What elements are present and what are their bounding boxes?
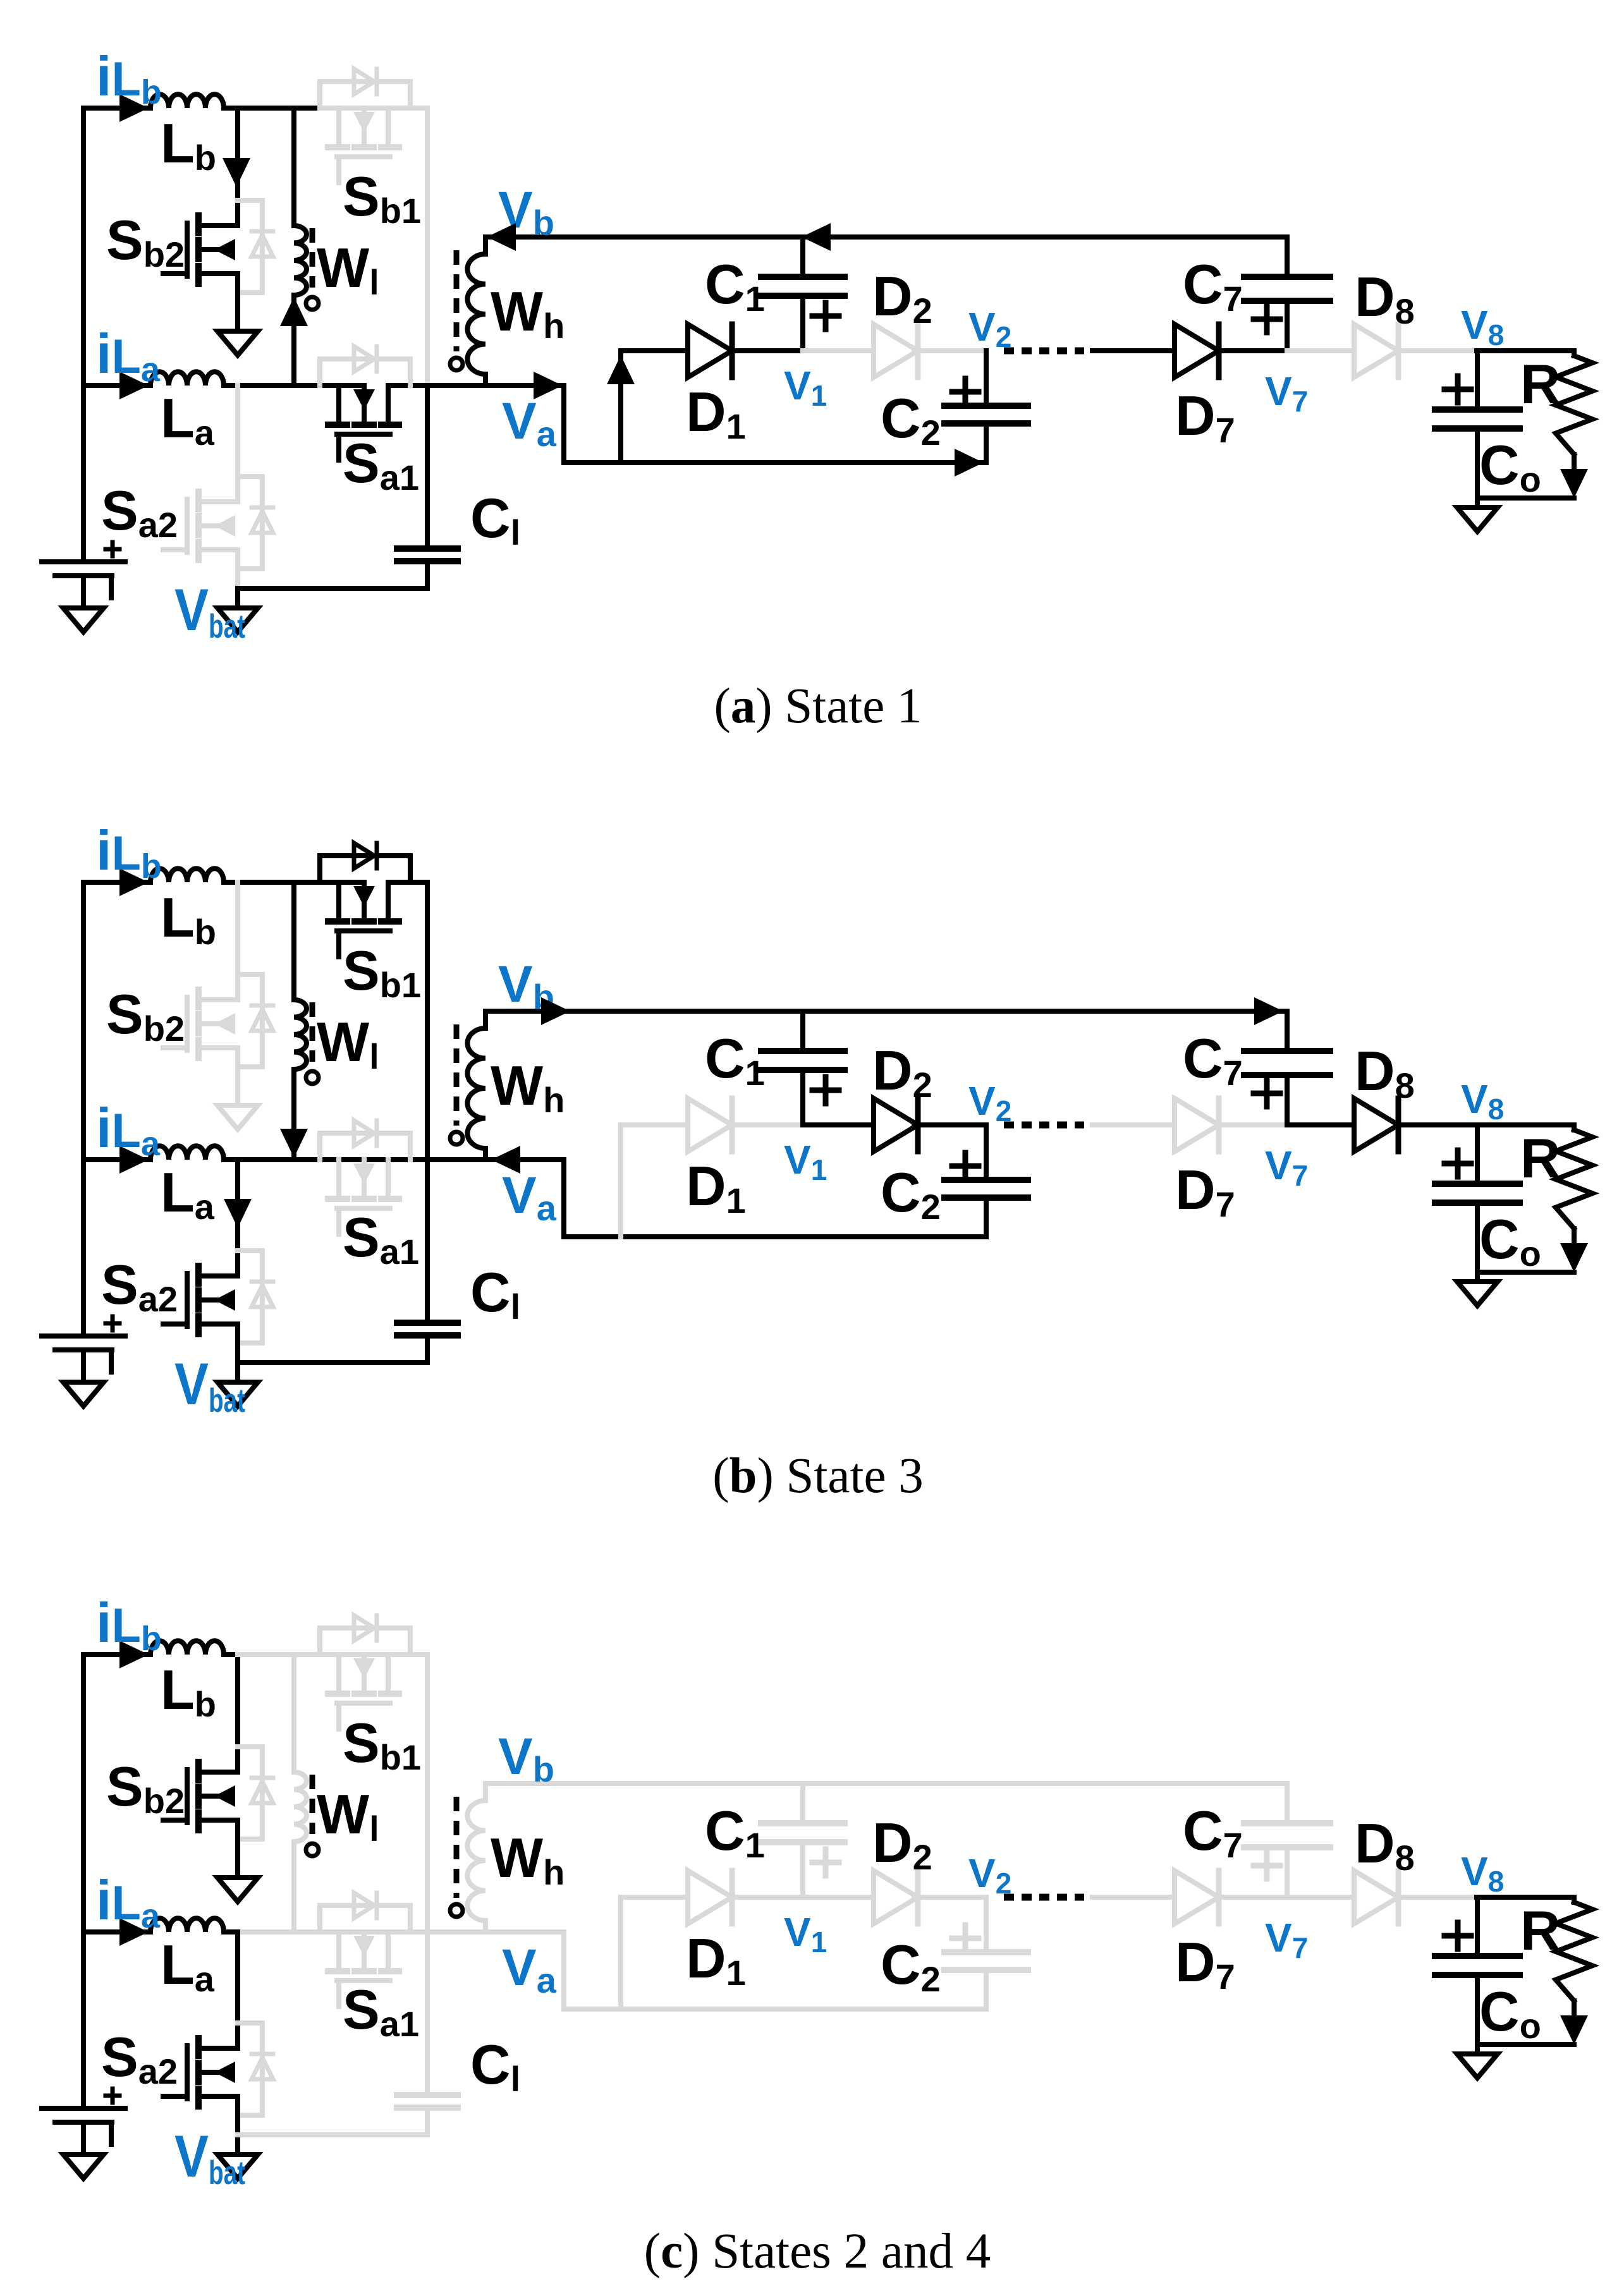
ground below Co xyxy=(1457,507,1498,531)
label V2 xyxy=(968,304,1011,353)
wire top rail Wl node to Sb1 xyxy=(294,1652,320,1657)
wire Va rail through Sa1 region xyxy=(294,1157,427,1162)
label Wl xyxy=(317,1011,379,1076)
wire D2 cathode to node V2 xyxy=(914,1122,986,1127)
label iLb xyxy=(96,819,162,885)
wire battery negative to ground xyxy=(81,576,86,608)
svg-text:R: R xyxy=(1520,1899,1561,1962)
label V1 xyxy=(784,1137,827,1186)
wire D7 cathode to node V7 xyxy=(1218,348,1287,353)
label Lb xyxy=(161,886,216,952)
wire top rail Sb2-node to Wl node xyxy=(238,106,294,111)
capacitor Cl xyxy=(397,549,458,561)
winding Wl upper lead xyxy=(291,108,296,226)
wire battery negative to ground xyxy=(81,2122,86,2154)
wire Cl top lead to Va rail xyxy=(425,1932,430,2095)
wire C2 top lead from node V2 xyxy=(984,1897,989,1952)
inductor La xyxy=(150,1918,224,1932)
transistor Sb1 xyxy=(328,108,399,183)
wire Va rail through Sa1 (source side) xyxy=(388,383,427,388)
label V7 xyxy=(1265,1143,1308,1192)
winding Wl xyxy=(294,1772,319,1856)
wire C7 bottom lead to node V7 xyxy=(1285,301,1290,351)
label C7 xyxy=(1183,1027,1243,1093)
diode D1 xyxy=(688,1098,732,1151)
circuit figure (a) State 1 xyxy=(42,45,1592,645)
plus polarity of C1 xyxy=(812,1849,839,1876)
label Co xyxy=(1479,1208,1541,1273)
capacitor C1 xyxy=(761,1051,845,1070)
wire Co bottom lead xyxy=(1475,1975,1480,2054)
arrow iLb current direction xyxy=(119,94,149,122)
arrow iLa current direction xyxy=(119,372,149,399)
wire Co bottom lead xyxy=(1475,1203,1480,1282)
plus polarity of C7 xyxy=(1254,306,1280,332)
arrow iLb current direction xyxy=(119,1641,149,1668)
svg-text:R: R xyxy=(1520,1127,1561,1189)
inductor Lb xyxy=(150,868,224,882)
label Sa1 xyxy=(343,432,419,497)
body diode of Sa2 xyxy=(238,1251,273,1343)
label D1 xyxy=(686,380,746,446)
wire Sa2 source down to rail xyxy=(235,2096,240,2135)
wire D2 cathode to node V2 xyxy=(914,1895,986,1900)
winding Wl xyxy=(294,1000,319,1084)
ground below Co xyxy=(1457,1282,1498,1306)
wire bottom rail to ground stub xyxy=(235,1363,240,1382)
body diode of Sa2 xyxy=(238,2023,273,2115)
label C7 xyxy=(1183,1799,1243,1865)
wire Sb2 source to ground xyxy=(235,1048,240,1105)
wire R bottom to Co bottom xyxy=(1478,1270,1574,1275)
ground below Sb2 xyxy=(217,1105,258,1129)
label D1 xyxy=(686,1155,746,1220)
wire Va rail through Sa1 region xyxy=(294,1929,427,1935)
label La xyxy=(161,1161,215,1227)
body diode of Sa1 xyxy=(320,1121,410,1160)
wire C7 top lead from Vb rail xyxy=(1285,237,1290,277)
plus polarity of C1 xyxy=(812,303,839,329)
svg-text:(a) State 1: (a) State 1 xyxy=(714,679,922,734)
body diode of Sb2 xyxy=(238,1747,273,1839)
body diode of Sa1 xyxy=(320,346,410,386)
label Sa1 xyxy=(343,1206,419,1272)
wire bottom rail (ground to Cl) xyxy=(238,1360,427,1365)
wire Va rail node to Wh bottom xyxy=(427,1157,485,1162)
wire D1 anode riser xyxy=(618,1125,623,1237)
label Cl xyxy=(470,1261,520,1327)
wire Va jog down xyxy=(485,1932,621,2009)
label Co xyxy=(1479,434,1541,499)
capacitor Co xyxy=(1435,1956,1520,1975)
ground below Co xyxy=(1457,2054,1498,2078)
label Va xyxy=(502,1167,557,1228)
winding Wl lower lead xyxy=(291,295,296,386)
wire Va rail Sa2-node to Wl node (inactive) xyxy=(238,1929,294,1935)
wire node V7 to D8 anode xyxy=(1287,348,1354,353)
wire node V7 to D8 anode xyxy=(1287,1895,1354,1900)
plus polarity of Co xyxy=(1444,1150,1471,1177)
label R xyxy=(1520,1127,1561,1189)
arrow iLa current direction xyxy=(119,1918,149,1946)
winding Wh upper lead to Vb corner xyxy=(483,1011,488,1028)
wire Sb2 drain branch (down from top rail) xyxy=(235,108,240,226)
wire node to Sb2 drain (down) xyxy=(235,1655,240,1772)
ground below Sa2 rail xyxy=(217,1382,258,1406)
wire bottom rail (ground to Cl) xyxy=(238,586,427,591)
ground below Sb2 xyxy=(217,331,258,355)
wire to D7 anode xyxy=(1092,348,1175,353)
capacitor C1 xyxy=(761,277,845,296)
wire D1 anode riser xyxy=(618,351,623,463)
wire battery negative to ground xyxy=(81,1350,86,1382)
capacitor Co xyxy=(1435,410,1520,428)
transistor Sb1 xyxy=(328,1655,399,1729)
label Wl xyxy=(317,236,379,302)
wire through Sb1 (drain side) xyxy=(320,880,364,885)
diode D8 xyxy=(1354,324,1398,377)
transistor Sa1 xyxy=(328,386,399,460)
label iLa xyxy=(96,1096,161,1163)
label D8 xyxy=(1355,1812,1415,1878)
label C2 xyxy=(881,1161,941,1227)
wire ladder bottom rail xyxy=(621,460,986,465)
label V1 xyxy=(784,363,827,412)
ground below battery xyxy=(63,1382,104,1406)
label Lb xyxy=(161,1658,216,1724)
capacitor Cl xyxy=(397,1323,458,1335)
capacitor C7 xyxy=(1244,1051,1330,1075)
wire D1 anode xyxy=(621,348,688,353)
wire La rail from left xyxy=(83,1929,150,1935)
wire Lb to Sb2 branch node xyxy=(224,106,238,111)
winding Wh lower lead xyxy=(483,374,488,386)
wire V8 down to capacitor Co xyxy=(1475,351,1480,410)
winding Wh upper lead to Vb corner xyxy=(483,1783,488,1801)
label C1 xyxy=(705,1799,765,1865)
inductor Lb xyxy=(150,94,224,108)
winding Wl upper lead xyxy=(291,1655,296,1772)
label V1 xyxy=(784,1909,827,1959)
label R xyxy=(1520,1899,1561,1962)
wire R bottom to Co bottom xyxy=(1478,2042,1574,2047)
transistor Sa2 xyxy=(163,492,238,560)
body diode of Sa1 xyxy=(320,1893,410,1932)
wire Co bottom lead xyxy=(1475,428,1480,507)
wire C2 bottom lead to rail xyxy=(984,1970,989,2009)
wire Sb1 right branch down to Va rail xyxy=(425,108,430,386)
wire D1 anode xyxy=(621,1122,688,1127)
wire dashed continuation V2 to D7 section xyxy=(1004,1894,1084,1901)
wire node V8 to load resistor R xyxy=(1477,1895,1574,1900)
label V8 xyxy=(1461,1076,1504,1126)
capacitor Co xyxy=(1435,1184,1520,1203)
wire D2 cathode to node V2 xyxy=(914,348,986,353)
capacitor C1 xyxy=(761,1823,845,1842)
capacitor C2 xyxy=(944,1180,1028,1198)
wire Lb to Sb2 branch node xyxy=(224,1652,238,1657)
wire top rail from left to Lb xyxy=(83,106,150,111)
label D2 xyxy=(872,265,932,331)
ground below battery xyxy=(63,608,104,632)
wire D1 cathode to node V1 xyxy=(732,1895,803,1900)
body diode of Sb2 xyxy=(238,200,273,293)
label Sb1 xyxy=(343,1711,421,1777)
voltage source Vbat xyxy=(42,1316,125,1372)
wire Sa2 drain branch (down from La rail) xyxy=(235,386,240,502)
arrow load current down xyxy=(1560,1243,1588,1272)
label La xyxy=(161,387,215,453)
plus polarity of Co xyxy=(1444,376,1471,403)
label Wl xyxy=(317,1783,379,1849)
wire top rail Sb2-node to Wl node (inactive) xyxy=(238,1652,294,1657)
label C2 xyxy=(881,387,941,453)
plus polarity of C1 xyxy=(812,1077,839,1103)
winding Wl upper lead xyxy=(291,882,296,1000)
transistor Sa1 xyxy=(328,1160,399,1234)
wire Sb1 right branch down to Va rail xyxy=(425,1655,430,1932)
winding Wl lower lead xyxy=(291,1069,296,1160)
wire bottom rail (ground to Cl) xyxy=(238,2132,427,2137)
body diode of Sb1 xyxy=(320,69,410,108)
inductor Lb xyxy=(150,1641,224,1655)
wire node Vb rail xyxy=(485,1781,1287,1786)
wire Cl bottom lead to rail xyxy=(425,1335,430,1363)
wire ladder bottom rail xyxy=(621,1234,986,1239)
label Sa1 xyxy=(343,1978,419,2044)
wire bottom rail to ground stub xyxy=(235,2135,240,2154)
transistor Sa2 xyxy=(163,1266,238,1334)
transistor Sb1 xyxy=(328,882,399,957)
wire left rail (battery to Lb) xyxy=(81,108,86,562)
arrow Va current to the right xyxy=(534,372,563,399)
label V8 xyxy=(1461,302,1504,351)
wire C7 top lead from Vb rail xyxy=(1285,1011,1290,1051)
wire V8 down to capacitor Co xyxy=(1475,1897,1480,1956)
wire top rail Wl node to Sb1 xyxy=(294,880,320,885)
svg-text:(b) State 3: (b) State 3 xyxy=(712,1449,924,1503)
wire C2 top lead from node V2 xyxy=(984,1125,989,1180)
label Sb1 xyxy=(343,165,421,231)
wire node Vb rail xyxy=(485,1009,1287,1014)
label V8 xyxy=(1461,1849,1504,1898)
wire C2 bottom lead to rail xyxy=(984,1198,989,1237)
wire C2 bottom lead to rail xyxy=(984,423,989,463)
wire top rail from left to Lb xyxy=(83,880,150,885)
wire Va jog down xyxy=(485,1160,621,1237)
wire bottom rail to ground stub xyxy=(235,588,240,608)
wire node V1 to D2 anode xyxy=(803,1895,874,1900)
label Lb xyxy=(161,112,216,178)
wire node V8 to load resistor R xyxy=(1477,348,1574,353)
resistor R xyxy=(1556,1125,1592,1245)
capacitor C7 xyxy=(1244,277,1330,301)
resistor R xyxy=(1556,1897,1592,2017)
label Va xyxy=(502,1939,557,2000)
diode D8 xyxy=(1354,1871,1398,1924)
circuit figure (b) State 3 xyxy=(42,819,1592,1419)
label Cl xyxy=(470,487,520,552)
arrow Va current toward Wh xyxy=(491,1146,520,1174)
wire node V1 to D2 anode xyxy=(803,1122,874,1127)
wire through Sb1 (source side) xyxy=(388,880,410,885)
transistor Sa2 xyxy=(163,2038,238,2106)
label R xyxy=(1520,353,1561,415)
label iLb xyxy=(96,1591,162,1658)
label Vbat xyxy=(174,1351,245,1419)
wire Cl bottom lead to rail xyxy=(425,561,430,588)
wire node Vb rail xyxy=(485,234,1287,240)
body diode of Sb1 xyxy=(320,843,410,882)
wire D1 anode xyxy=(621,1895,688,1900)
label D2 xyxy=(872,1039,932,1105)
wire Sb1 source to right branch xyxy=(410,880,427,885)
wire C7 bottom lead to node V7 xyxy=(1285,1075,1290,1125)
wire La rail from left xyxy=(83,1157,150,1162)
winding Wh xyxy=(450,250,485,374)
wire Cl bottom lead to rail xyxy=(425,2108,430,2135)
winding Wh xyxy=(450,1797,485,1921)
wire node V7 to D8 anode xyxy=(1287,1122,1354,1127)
diode D2 xyxy=(874,324,918,377)
label Sb2 xyxy=(106,1755,185,1821)
transistor Sa1 xyxy=(328,1932,399,2007)
ground below Sb2 xyxy=(217,1878,258,1902)
wire D7 cathode to node V7 xyxy=(1218,1122,1287,1127)
arrow Vb current into C7 xyxy=(1254,997,1283,1025)
wire Sb1 right branch down to Va rail xyxy=(425,882,430,1160)
wire Cl top lead to Va rail xyxy=(425,386,430,549)
arrow load current down xyxy=(1560,2015,1588,2044)
capacitor C7 xyxy=(1244,1823,1330,1847)
label iLa xyxy=(96,322,161,389)
circuit figure (c) States 2 and 4 xyxy=(42,1591,1592,2192)
wire D8 cathode to node V8 xyxy=(1398,1895,1477,1900)
label Vb xyxy=(498,1728,554,1789)
arrow iLb current direction xyxy=(119,868,149,896)
capacitor C2 xyxy=(944,406,1028,423)
label Vbat xyxy=(174,2123,245,2192)
diode D7 xyxy=(1175,1098,1219,1151)
voltage source Vbat xyxy=(42,2089,125,2144)
wire La to Sa2 branch node xyxy=(224,1929,238,1935)
wire C1 top lead xyxy=(800,1783,805,1823)
label Wh xyxy=(491,1826,565,1892)
wire La rail from left xyxy=(83,383,150,388)
label Vb xyxy=(498,181,554,243)
diode D1 xyxy=(688,1871,732,1924)
label V7 xyxy=(1265,368,1308,418)
svg-text:R: R xyxy=(1520,353,1561,415)
label D2 xyxy=(872,1811,932,1877)
diode D2 xyxy=(874,1098,918,1151)
transistor Sb2 xyxy=(163,990,238,1058)
diode D7 xyxy=(1175,324,1219,377)
label Vbat xyxy=(174,576,245,645)
arrow current into Sb2 xyxy=(223,158,250,187)
arrow Vb current toward Wh xyxy=(487,223,516,251)
arrow Vb current at C1 xyxy=(802,223,831,251)
winding Wh lower lead xyxy=(483,1148,488,1160)
arrow iLa current direction xyxy=(119,1146,149,1174)
label La xyxy=(161,1933,215,1999)
plus polarity of C2 xyxy=(952,1925,979,1952)
diode D7 xyxy=(1175,1871,1219,1924)
wire through Sb1 region xyxy=(320,1652,410,1657)
wire Cl top lead to Va rail xyxy=(425,1160,430,1323)
plus polarity of Co xyxy=(1444,1922,1471,1949)
wire D8 cathode to node V8 xyxy=(1398,348,1477,353)
label Sb1 xyxy=(343,939,421,1005)
wire Va rail node to Wh bottom xyxy=(427,1929,485,1935)
wire Sb2 source to ground xyxy=(235,274,240,331)
wire node V8 to load resistor R xyxy=(1477,1122,1574,1127)
wire Sb1 source to right branch xyxy=(410,1652,427,1657)
label Sa2 xyxy=(101,479,178,545)
label Wh xyxy=(491,280,565,346)
wire Va rail node to Wh bottom xyxy=(427,383,485,388)
arrow current into Sa2 xyxy=(224,1199,252,1228)
capacitor Cl xyxy=(397,2095,458,2108)
wire D8 cathode to node V8 xyxy=(1398,1122,1477,1127)
label Wh xyxy=(491,1054,565,1120)
wire top rail from left to Lb xyxy=(83,1652,150,1657)
wire C7 bottom lead to node V7 xyxy=(1285,1847,1290,1897)
label Sb2 xyxy=(106,209,185,274)
label V7 xyxy=(1265,1915,1308,1964)
label C1 xyxy=(705,253,765,319)
wire left rail (battery to Lb) xyxy=(81,882,86,1336)
wire ladder bottom rail xyxy=(621,2007,986,2012)
label C1 xyxy=(705,1027,765,1093)
wire C7 top lead from Vb rail xyxy=(1285,1783,1290,1823)
diode D2 xyxy=(874,1871,918,1924)
label D8 xyxy=(1355,265,1415,331)
resistor R xyxy=(1556,351,1592,471)
ground below battery xyxy=(63,2154,104,2178)
wire Va rail through Sa1 (drain side) xyxy=(294,383,364,388)
winding Wh lower lead xyxy=(483,1921,488,1932)
wire Sa2 source down to rail xyxy=(235,1324,240,1363)
label V2 xyxy=(968,1850,1011,1900)
wire C1 bottom lead to node V1 xyxy=(800,1070,805,1125)
arrow current up into D1 xyxy=(607,355,635,384)
wire Va rail Sa2-node to Wl node xyxy=(238,1157,294,1162)
wire C1 bottom lead to node V1 xyxy=(800,296,805,351)
svg-text:(c) States 2 and 4: (c) States 2 and 4 xyxy=(644,2224,991,2279)
label Vb xyxy=(498,956,554,1017)
ground below Sa2 rail xyxy=(217,608,258,632)
winding Wh xyxy=(450,1024,485,1148)
plus polarity of C7 xyxy=(1254,1852,1280,1879)
label iLb xyxy=(96,45,162,111)
wire Sa2 drain branch (down from La rail) xyxy=(235,1160,240,1276)
wire D1 anode riser xyxy=(618,1897,623,2009)
arrow current in Wl (down) xyxy=(280,1129,308,1158)
wire C1 bottom lead to node V1 xyxy=(800,1842,805,1897)
capacitor C2 xyxy=(944,1952,1028,1970)
diode D1 xyxy=(688,324,732,377)
transistor Sb2 xyxy=(163,1762,238,1830)
plus polarity of C2 xyxy=(952,1153,979,1179)
winding Wl lower lead xyxy=(291,1842,296,1932)
wire Sb1 source to right branch xyxy=(410,106,427,111)
body diode of Sb2 xyxy=(238,975,273,1067)
label iLa xyxy=(96,1869,161,1935)
label D8 xyxy=(1355,1040,1415,1105)
voltage source Vbat xyxy=(42,542,125,598)
winding Wh upper lead to Vb corner xyxy=(483,237,488,254)
